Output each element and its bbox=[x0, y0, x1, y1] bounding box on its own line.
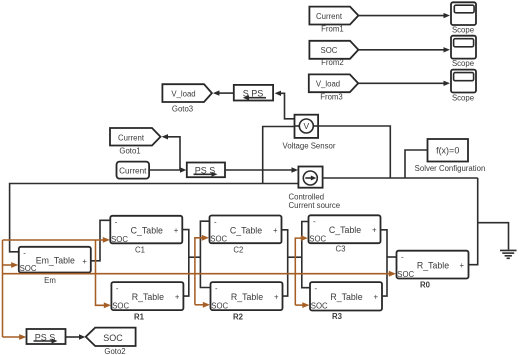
wire From3 to Scope bbox=[358, 81, 450, 86]
svg-text:C3: C3 bbox=[336, 245, 346, 254]
wire (orange) SOC trunk vertical bbox=[2, 240, 4, 337]
svg-text:R1: R1 bbox=[134, 313, 145, 322]
scope Scope (top) bbox=[451, 2, 476, 34]
scope Scope (bottom) bbox=[451, 70, 476, 103]
wire Voltage Sensor to S PS bbox=[275, 91, 294, 119]
scope Scope (middle) bbox=[451, 36, 476, 68]
table block R_Table (R3) bbox=[310, 282, 382, 321]
table block R_Table (R0) bbox=[397, 251, 469, 290]
table block R_Table (R1) bbox=[111, 282, 183, 321]
svg-text:Solver Configuration: Solver Configuration bbox=[415, 164, 486, 173]
converter block PS S bbox=[187, 163, 225, 178]
svg-text:-: - bbox=[214, 217, 217, 226]
svg-text:SOC: SOC bbox=[210, 235, 227, 244]
Goto tag Goto1 "Current" bbox=[110, 128, 161, 156]
wire (orange) pair1 vertical to R1 SOC bbox=[96, 240, 112, 308]
wire Voltage Sensor left port down to bus bbox=[263, 127, 295, 184]
wire (orange) bottom branch to PS S bbox=[3, 334, 27, 340]
table block Em_Table (Em) bbox=[19, 247, 91, 285]
svg-text:+: + bbox=[175, 292, 180, 301]
svg-text:Voltage Sensor: Voltage Sensor bbox=[283, 142, 336, 151]
wire (orange) pair2 vertical C2/R2 SOC bbox=[195, 235, 210, 308]
svg-text:C_Table: C_Table bbox=[230, 225, 262, 235]
svg-text:+: + bbox=[460, 261, 465, 270]
wire C2- R2- left connector bbox=[200, 221, 210, 287]
svg-text:SOC: SOC bbox=[309, 235, 326, 244]
source U-I Controlled Current source bbox=[289, 167, 341, 211]
table block C_Table (C3) bbox=[309, 215, 381, 253]
svg-text:SOC: SOC bbox=[112, 301, 129, 310]
wire S PS to Goto3 bbox=[213, 90, 234, 95]
svg-text:SOC: SOC bbox=[20, 264, 37, 273]
svg-text:-: - bbox=[401, 253, 404, 262]
svg-text:From3: From3 bbox=[320, 92, 343, 101]
svg-text:+: + bbox=[273, 226, 278, 235]
sensor U-V Voltage Sensor bbox=[283, 115, 336, 151]
svg-text:Em: Em bbox=[44, 276, 56, 285]
svg-text:SOC: SOC bbox=[311, 302, 328, 311]
svg-text:SOC: SOC bbox=[397, 270, 414, 279]
svg-text:Scope: Scope bbox=[452, 59, 474, 68]
svg-text:R2: R2 bbox=[233, 313, 244, 322]
svg-text:From1: From1 bbox=[321, 24, 344, 33]
wire (orange) pair3 vertical C3/R3 SOC bbox=[295, 235, 309, 308]
svg-text:Current: Current bbox=[118, 133, 145, 142]
wire (orange) top branch to C1 SOC bbox=[3, 237, 111, 243]
wire C1+ down to R1+ bbox=[182, 230, 189, 297]
svg-text:+: + bbox=[82, 257, 87, 266]
svg-text:From2: From2 bbox=[321, 58, 344, 67]
svg-text:Goto1: Goto1 bbox=[119, 147, 140, 156]
From tag From3 "V_load" bbox=[309, 74, 358, 101]
wire current source output to right bbox=[323, 177, 478, 179]
wire link pair2 to pair3 bbox=[288, 256, 302, 258]
wire ground tap bbox=[478, 223, 509, 250]
wire (orange) SOC bus to R0 bbox=[3, 271, 397, 277]
wire Voltage Sensor right port down to node bbox=[318, 126, 390, 178]
wire C3- R3- left connector bbox=[302, 222, 310, 288]
wire Em+ up to C1- bbox=[91, 220, 111, 260]
svg-text:R3: R3 bbox=[332, 312, 343, 321]
signal block "Current" (rounded) bbox=[117, 162, 150, 179]
table block C_Table (C2) bbox=[210, 216, 282, 255]
svg-text:C1: C1 bbox=[135, 245, 145, 254]
svg-text:SOC: SOC bbox=[103, 333, 123, 343]
svg-text:C_Table: C_Table bbox=[329, 225, 361, 235]
svg-text:C_Table: C_Table bbox=[131, 226, 163, 236]
svg-text:+: + bbox=[274, 292, 279, 301]
svg-text:R0: R0 bbox=[420, 281, 431, 290]
Goto tag Goto2 "SOC" bbox=[86, 328, 136, 355]
wire junction to Goto1 bbox=[162, 134, 181, 170]
svg-text:-: - bbox=[23, 248, 26, 257]
wire C2+ down to R2+ bbox=[282, 230, 288, 296]
converter block S PS bbox=[234, 85, 273, 101]
svg-text:SOC: SOC bbox=[321, 46, 338, 55]
svg-text:Goto2: Goto2 bbox=[104, 347, 125, 355]
svg-text:-: - bbox=[116, 284, 119, 293]
svg-text:SOC: SOC bbox=[211, 301, 228, 310]
svg-text:+: + bbox=[374, 293, 379, 302]
svg-text:V_load: V_load bbox=[316, 80, 340, 89]
wire Current to PS S bbox=[149, 167, 186, 172]
wire right vertical to R0 bbox=[469, 178, 478, 265]
wire link pair3 to R0 bbox=[387, 256, 397, 258]
svg-text:Controlled: Controlled bbox=[289, 193, 325, 202]
From tag From2 "SOC" bbox=[309, 41, 358, 67]
wire PS S to Goto2 bbox=[66, 334, 86, 339]
wire PS S to Controlled Current source bbox=[225, 167, 298, 172]
svg-text:R_Table: R_Table bbox=[132, 292, 164, 302]
svg-text:R_Table: R_Table bbox=[231, 292, 263, 302]
svg-text:C2: C2 bbox=[233, 246, 243, 255]
table block C_Table (C1) bbox=[110, 216, 182, 255]
table block R_Table (R2) bbox=[211, 282, 283, 321]
Goto tag Goto3 "V_load" bbox=[162, 84, 212, 113]
svg-text:R_Table: R_Table bbox=[330, 292, 362, 302]
svg-text:Current: Current bbox=[316, 12, 343, 21]
svg-text:-: - bbox=[115, 218, 118, 227]
From tag From1 "Current" bbox=[309, 7, 358, 34]
solver block f(x)=0 bbox=[415, 139, 486, 173]
svg-text:+: + bbox=[372, 226, 377, 235]
wire link pair1 to pair2 bbox=[189, 256, 201, 258]
svg-text:R_Table: R_Table bbox=[417, 261, 449, 271]
wire main electrical bus (left) bbox=[10, 184, 299, 252]
svg-text:-: - bbox=[313, 217, 316, 226]
svg-text:Em_Table: Em_Table bbox=[36, 256, 75, 266]
wire Solver Configuration to node bbox=[405, 150, 428, 178]
wire (orange) branch to Em SOC bbox=[3, 262, 19, 268]
svg-text:V: V bbox=[303, 121, 309, 131]
svg-text:Scope: Scope bbox=[452, 26, 474, 35]
converter block PS S (bottom) bbox=[27, 329, 66, 344]
svg-text:Current source: Current source bbox=[289, 201, 341, 210]
svg-text:SOC: SOC bbox=[111, 235, 128, 244]
wire From1 to Scope bbox=[358, 13, 450, 18]
wire C3+ down to R3+ bbox=[381, 230, 388, 296]
svg-text:Current: Current bbox=[119, 167, 147, 176]
svg-text:-: - bbox=[315, 284, 318, 293]
svg-text:V_load: V_load bbox=[171, 89, 195, 98]
svg-text:+: + bbox=[174, 226, 179, 235]
svg-text:Scope: Scope bbox=[452, 93, 474, 102]
ground bbox=[500, 250, 517, 258]
wire From2 to Scope bbox=[358, 47, 450, 52]
svg-text:Goto3: Goto3 bbox=[172, 104, 193, 113]
svg-text:f(x)=0: f(x)=0 bbox=[436, 146, 459, 156]
svg-text:-: - bbox=[215, 284, 218, 293]
